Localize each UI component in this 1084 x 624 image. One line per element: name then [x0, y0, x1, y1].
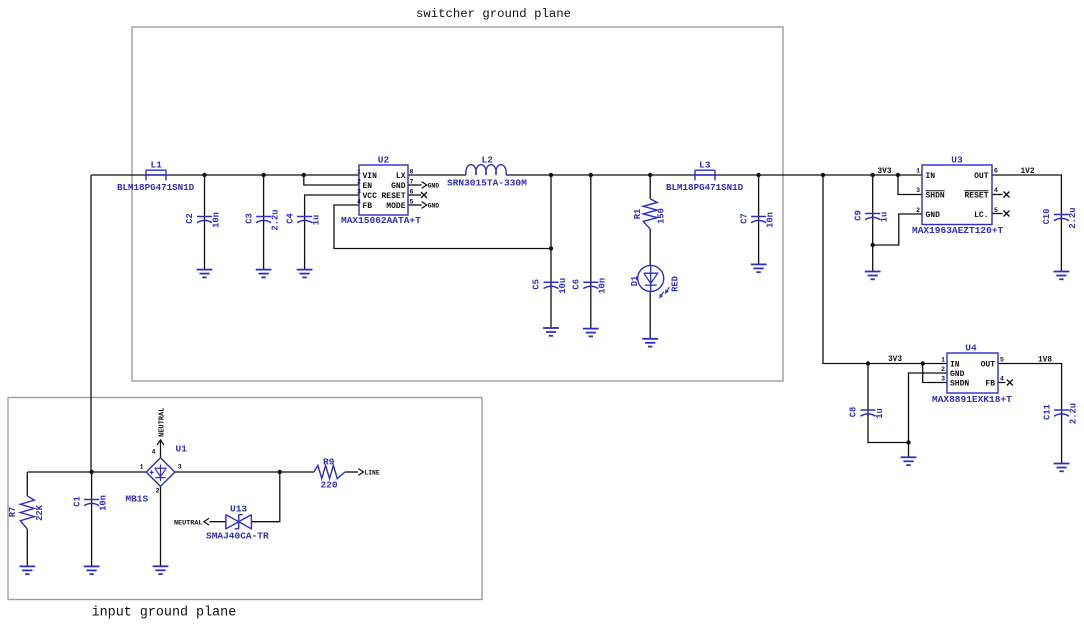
svg-text:SMAJ40CA-TR: SMAJ40CA-TR	[206, 531, 269, 542]
svg-text:22K: 22K	[35, 504, 45, 521]
wire U13 to NEUTRAL arrow	[210, 521, 226, 523]
no-connect X at U2 pin6	[421, 192, 427, 198]
ground under R7	[19, 566, 35, 574]
wire C8 branch	[868, 364, 909, 443]
wire D1 cathode to ground	[649, 291, 651, 338]
ground under C2	[197, 270, 213, 278]
wire U4 GND pin2 route	[909, 373, 948, 443]
svg-text:C3: C3	[244, 213, 254, 224]
net label 1V2	[1021, 168, 1035, 176]
svg-text:LINE: LINE	[365, 469, 380, 476]
U3 pin labels	[926, 172, 989, 220]
wire L2 to U3 pin1 (3V3 net)	[506, 174, 922, 176]
value label U4: MAX8891EXK18+T	[932, 394, 1012, 405]
wire U3 pin4 stub	[992, 194, 1003, 196]
value label U13: SMAJ40CA-TR	[206, 531, 269, 542]
svg-text:2: 2	[156, 488, 160, 495]
ground under C4	[297, 270, 313, 278]
wire C9 branch	[872, 175, 874, 272]
wire U1 pin3 to R9 node	[175, 471, 314, 473]
svg-text:6: 6	[410, 189, 414, 196]
wire input rail R7 to bridge	[27, 471, 146, 473]
svg-text:OUT: OUT	[981, 360, 996, 369]
svg-text:220: 220	[321, 480, 338, 491]
wire R9 node down to U13	[251, 472, 279, 522]
svg-text:R7: R7	[8, 507, 18, 518]
wire U3 pin5 stub	[992, 213, 1003, 215]
junction R1 branch	[648, 173, 652, 177]
wire ground stub below U4 gnd node	[908, 443, 910, 458]
no-connect X at U4 pin4	[1007, 380, 1013, 386]
svg-text:SRN3015TA-330M: SRN3015TA-330M	[447, 178, 527, 189]
value label U1: MB1S	[125, 494, 148, 505]
capacitor C10 2.2u	[1042, 207, 1078, 228]
wire C1 branch	[91, 472, 93, 566]
svg-text:3: 3	[916, 187, 920, 194]
wire U4 pin4 stub	[998, 382, 1006, 384]
capacitor C1 10n	[72, 495, 108, 511]
svg-text:3V3: 3V3	[888, 356, 902, 364]
switcher ground plane boundary box	[132, 27, 783, 381]
junction C7/3V3 rail	[756, 173, 760, 177]
svg-text:1V8: 1V8	[1038, 356, 1052, 364]
svg-text:7: 7	[410, 179, 414, 186]
ground under C6	[583, 329, 599, 337]
net arrow LINE	[358, 469, 380, 477]
svg-text:MAX15062AATA+T: MAX15062AATA+T	[341, 215, 421, 226]
junction C9/3V3 rail	[871, 173, 875, 177]
svg-text:R1: R1	[633, 209, 643, 220]
wire C5 to ground	[550, 175, 552, 328]
svg-text:3: 3	[357, 189, 361, 196]
wire VIN rail (top main net, y=175)	[91, 174, 359, 176]
svg-text:LC.: LC.	[974, 211, 988, 220]
svg-text:5: 5	[410, 199, 414, 206]
svg-text:150: 150	[657, 208, 667, 224]
svg-text:C2: C2	[185, 213, 195, 224]
wire U4 OUT pin5 to C11 (1V8 net)	[998, 364, 1062, 464]
ground under C5	[543, 328, 559, 336]
ground under C10	[1054, 272, 1070, 280]
junction U3 SHDN branch	[896, 173, 900, 177]
svg-text:C1: C1	[72, 496, 82, 507]
svg-text:L2: L2	[482, 154, 494, 165]
net label 1V8	[1038, 356, 1052, 364]
svg-text:OUT: OUT	[974, 172, 989, 181]
svg-text:1u: 1u	[875, 408, 885, 419]
svg-text:C5: C5	[532, 279, 542, 290]
svg-text:RESET: RESET	[964, 191, 988, 200]
svg-text:C6: C6	[572, 279, 582, 290]
svg-text:MB1S: MB1S	[125, 494, 148, 505]
label: switcher ground plane	[416, 7, 571, 21]
svg-text:U4: U4	[965, 343, 977, 354]
junction C2/VIN rail	[202, 173, 206, 177]
svg-text:10n: 10n	[98, 495, 108, 511]
svg-text:FB: FB	[985, 379, 995, 388]
svg-text:10n: 10n	[598, 278, 608, 294]
wire R9 to LINE arrow	[345, 471, 358, 473]
ground under U1	[153, 566, 169, 574]
svg-text:4: 4	[357, 199, 361, 206]
svg-text:R9: R9	[323, 456, 335, 467]
junction U4 supply branch	[821, 173, 825, 177]
U2 pin labels	[363, 172, 406, 211]
resistor R1 150	[633, 199, 667, 229]
junction C6/output node	[589, 173, 593, 177]
wire EN pin2 branch	[304, 175, 359, 185]
svg-text:3: 3	[941, 375, 945, 382]
svg-text:GND: GND	[391, 182, 406, 191]
net arrow NEUTRAL at U13	[174, 518, 209, 527]
U1 pin numbers	[140, 449, 182, 495]
wire FB pin4 feedback to output node	[334, 205, 551, 249]
svg-text:input ground plane: input ground plane	[92, 606, 237, 621]
net label 3V3 at U4	[888, 356, 902, 364]
capacitor C3 2.2u	[244, 209, 280, 230]
ground under C8/U4	[901, 457, 917, 465]
net label 3V3 at U3	[878, 168, 892, 176]
input ground plane boundary box	[8, 398, 482, 600]
junction C5/output node	[549, 173, 553, 177]
svg-text:6: 6	[994, 168, 998, 175]
capacitor C8 1u	[849, 407, 885, 419]
wire 3V3 down to U4 rail	[823, 175, 947, 364]
svg-text:switcher ground plane: switcher ground plane	[416, 7, 571, 21]
ground under D1	[642, 339, 658, 347]
capacitor C2 10n	[185, 212, 221, 228]
svg-text:C4: C4	[285, 213, 295, 224]
value label L1: BLM18PG471SN1D	[117, 182, 195, 193]
svg-text:1V2: 1V2	[1021, 168, 1035, 176]
ground under C1	[84, 566, 100, 574]
svg-text:1: 1	[140, 464, 144, 471]
wire U2 pin7 stub	[408, 184, 422, 186]
wire R1 to D1 anode	[649, 229, 651, 266]
wire U2 pin5 stub	[408, 204, 422, 206]
ground under C3	[256, 270, 272, 278]
bridge rectifier U1 MB1S	[146, 444, 187, 487]
wire U3 OUT pin6 to C10 (1V2 net)	[992, 175, 1061, 272]
svg-text:C11: C11	[1042, 404, 1052, 420]
ground under C11	[1054, 464, 1070, 472]
op-amp/regulator U2 MAX15062 box	[359, 155, 408, 216]
svg-text:GND: GND	[950, 370, 965, 379]
wire VCC pin3 to C4	[305, 195, 359, 270]
value label U3: MAX1963AEZT120+T	[912, 225, 1004, 236]
wire LX output U2 pin8 to L2	[408, 174, 466, 176]
svg-text:3: 3	[178, 464, 182, 471]
svg-text:U13: U13	[230, 504, 247, 515]
svg-text:5: 5	[1000, 356, 1004, 363]
svg-text:1: 1	[916, 168, 920, 175]
regulator U4 MAX8891 box	[947, 343, 998, 394]
wire R1 top lead	[649, 175, 651, 199]
svg-text:VCC: VCC	[363, 192, 378, 201]
svg-text:NEUTRAL: NEUTRAL	[159, 408, 167, 437]
svg-text:10n: 10n	[211, 212, 221, 228]
capacitor C9 1u	[853, 210, 889, 222]
svg-text:IN: IN	[926, 172, 936, 181]
junction C1/input rail	[89, 470, 93, 474]
junction R9/U13 node	[278, 470, 282, 474]
inductor L3 ferrite bead	[695, 159, 715, 180]
svg-text:2: 2	[357, 179, 361, 186]
U3 pin numbers	[916, 168, 998, 214]
junction U4 SHDN branch	[921, 361, 925, 365]
resistor R9 220	[314, 456, 345, 490]
svg-text:L3: L3	[699, 159, 711, 170]
svg-text:L1: L1	[151, 160, 163, 171]
wire C7 to ground	[758, 175, 760, 264]
svg-text:MODE: MODE	[386, 202, 405, 211]
svg-text:2: 2	[916, 207, 920, 214]
svg-text:LX: LX	[396, 172, 406, 181]
wire C2 to ground	[204, 175, 206, 270]
svg-text:C10: C10	[1042, 209, 1052, 225]
svg-text:1: 1	[941, 356, 945, 363]
GND net arrow at U2 pin7	[422, 182, 440, 190]
wire R7 bottom to ground	[26, 529, 28, 566]
junction EN branch/VIN rail	[302, 173, 306, 177]
capacitor C7 10n	[739, 212, 775, 228]
svg-text:RESET: RESET	[381, 192, 405, 201]
svg-text:10u: 10u	[558, 278, 568, 294]
junction C8/3V3 lower rail	[866, 361, 870, 365]
no-connect X at U3 pin4	[1004, 192, 1010, 198]
svg-text:5: 5	[994, 207, 998, 214]
wire U1 pin4 to NEUTRAL	[160, 440, 162, 458]
wire from VIN rail down to input stage	[90, 175, 92, 472]
svg-text:1u: 1u	[311, 215, 321, 226]
GND net arrow at U2 pin5	[422, 202, 440, 210]
svg-text:3V3: 3V3	[878, 168, 892, 176]
no-connect X at U3 pin5	[1004, 211, 1010, 217]
svg-text:GND: GND	[428, 202, 440, 209]
junction C8 gnd/U4 gnd	[906, 440, 910, 444]
LED D1 RED	[630, 265, 681, 298]
svg-text:BLM18PG471SN1D: BLM18PG471SN1D	[117, 182, 195, 193]
TVS diode U13	[226, 504, 252, 529]
svg-text:RED: RED	[671, 276, 681, 292]
U2 pin numbers	[357, 169, 414, 206]
wire U4 SHDN pin3 branch	[923, 364, 947, 383]
U4 pin numbers	[941, 356, 1004, 382]
svg-text:4: 4	[152, 449, 156, 456]
svg-text:8: 8	[410, 169, 414, 176]
wire U2 pin6 stub	[408, 194, 421, 196]
ground under C7	[751, 264, 767, 272]
svg-text:10n: 10n	[765, 212, 775, 228]
svg-text:1u: 1u	[880, 212, 890, 223]
wire C6 to ground	[590, 175, 592, 329]
wire U3 GND pin2 route	[873, 214, 922, 245]
svg-text:U3: U3	[951, 155, 963, 166]
svg-text:C8: C8	[849, 407, 859, 418]
wire R7 top	[26, 472, 28, 496]
svg-text:4: 4	[994, 187, 998, 194]
capacitor C11 2.2u	[1042, 403, 1078, 424]
svg-text:4: 4	[1000, 375, 1004, 382]
svg-text:2.2u: 2.2u	[270, 209, 280, 230]
capacitor C5 10u	[532, 278, 568, 294]
svg-text:MAX1963AEZT120+T: MAX1963AEZT120+T	[912, 225, 1004, 236]
svg-text:GND: GND	[428, 182, 440, 189]
svg-text:C9: C9	[853, 210, 863, 221]
svg-text:U1: U1	[176, 444, 188, 455]
svg-text:IN: IN	[950, 360, 960, 369]
value label L3: BLM18PG471SN1D	[666, 182, 744, 193]
ground under C9	[865, 272, 881, 280]
junction FB sense at output	[549, 246, 553, 250]
svg-text:2.2u: 2.2u	[1068, 403, 1078, 424]
svg-text:2: 2	[941, 366, 945, 373]
svg-text:MAX8891EXK18+T: MAX8891EXK18+T	[932, 394, 1012, 405]
capacitor C6 10n	[572, 278, 608, 294]
svg-text:SHDN: SHDN	[926, 191, 945, 200]
svg-text:C7: C7	[739, 213, 749, 224]
value label L2: SRN3015TA-330M	[447, 178, 527, 189]
svg-text:EN: EN	[363, 182, 373, 191]
wire C3 to ground	[263, 175, 265, 270]
svg-text:BLM18PG471SN1D: BLM18PG471SN1D	[666, 182, 744, 193]
svg-text:VIN: VIN	[363, 172, 378, 181]
svg-text:SHDN: SHDN	[950, 379, 969, 388]
inductor L1 ferrite bead	[146, 160, 166, 181]
svg-text:U2: U2	[378, 155, 390, 166]
junction C9 bottom/U3 gnd	[871, 243, 875, 247]
svg-text:2.2u: 2.2u	[1068, 207, 1078, 228]
value label U2: MAX15062AATA+T	[341, 215, 421, 226]
svg-text:D1: D1	[630, 276, 640, 287]
wire U3 SHDN pin3 branch	[898, 175, 922, 195]
U4 pin labels	[950, 360, 995, 388]
svg-text:NEUTRAL: NEUTRAL	[174, 519, 203, 527]
junction C3/VIN rail	[261, 173, 265, 177]
net arrow NEUTRAL above U1	[157, 408, 167, 445]
capacitor C4 1u	[285, 213, 321, 226]
label: input ground plane	[92, 606, 237, 621]
inductor L2	[466, 154, 506, 175]
svg-text:1: 1	[357, 169, 361, 176]
resistor R7 2.2K	[8, 496, 45, 529]
svg-text:FB: FB	[363, 202, 373, 211]
wire U1 pin2 to ground	[160, 486, 162, 566]
regulator U3 MAX1963 box	[922, 155, 992, 225]
svg-text:GND: GND	[926, 211, 941, 220]
